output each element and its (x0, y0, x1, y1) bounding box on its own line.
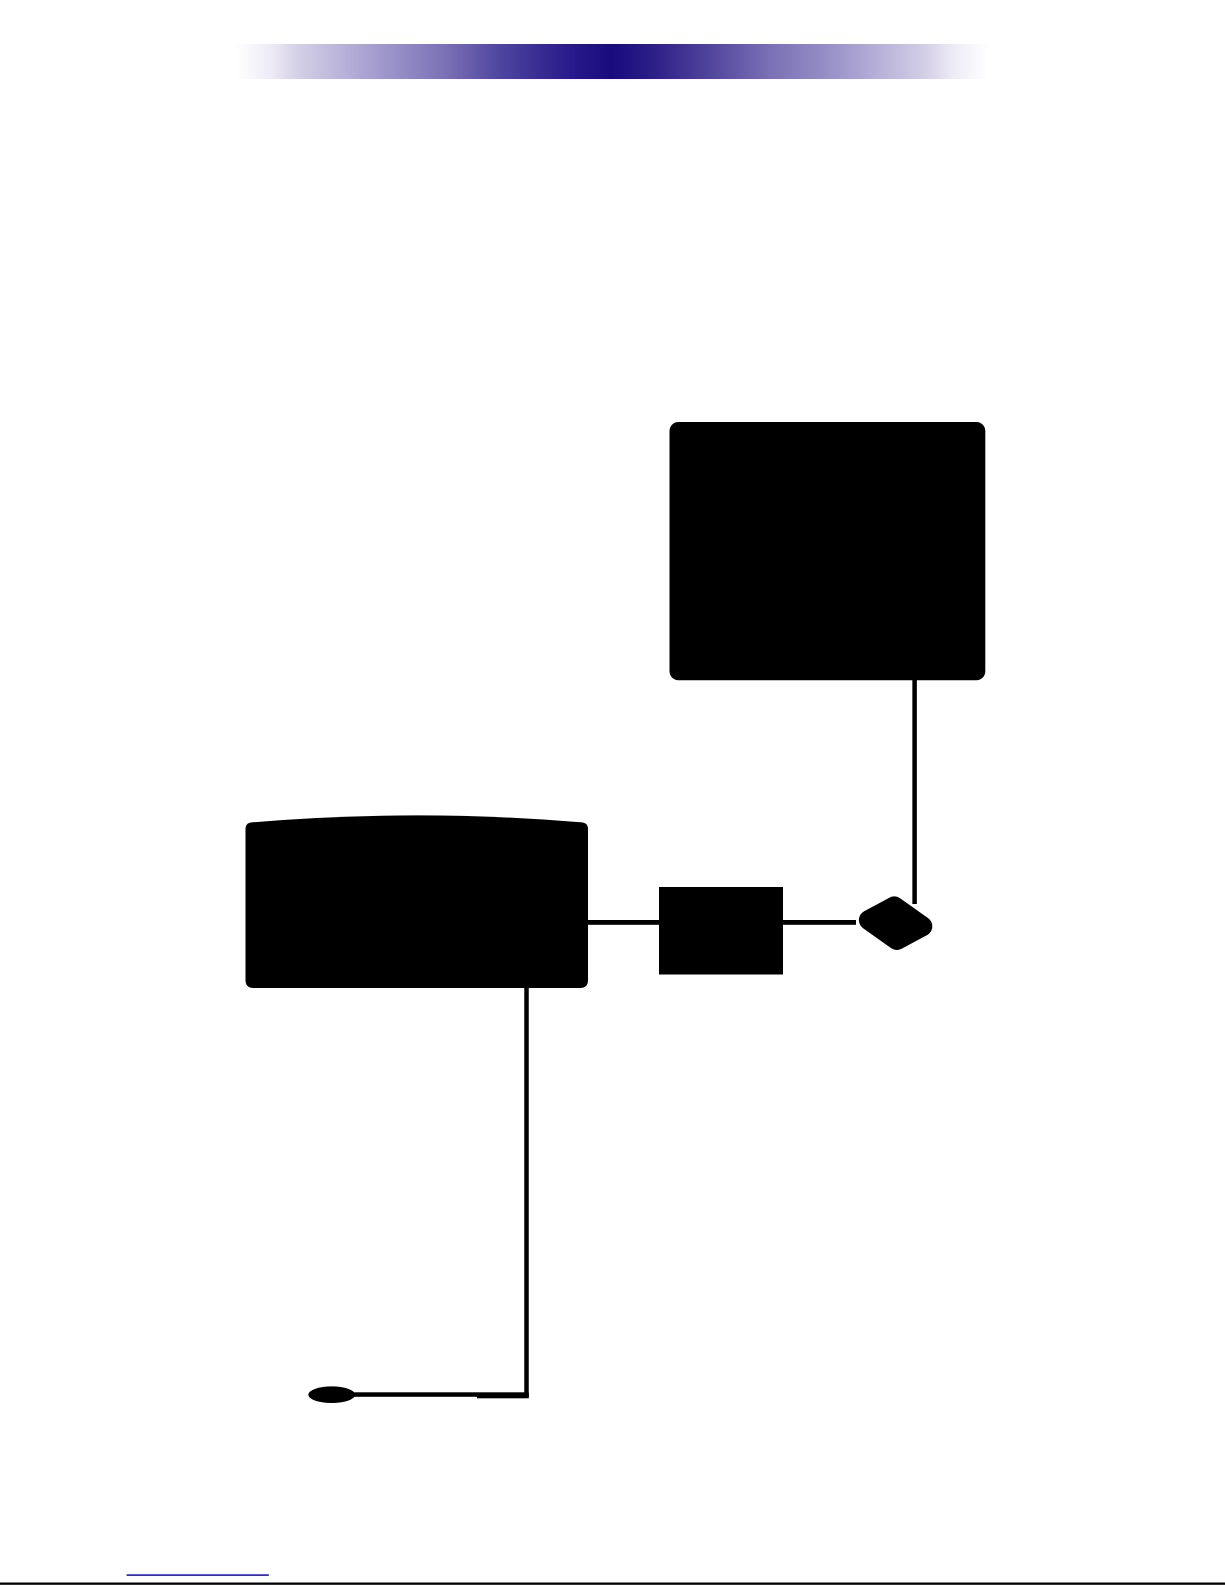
blue footer link underline (127, 1574, 269, 1576)
horizontal wire to remote sensor (352, 1392, 529, 1397)
wire from TV down to antenna connector (912, 679, 917, 904)
TV (top black rounded rectangle) (670, 422, 986, 680)
RF modulator (small black box) (659, 887, 783, 975)
remote sensor (black ellipse) (308, 1386, 355, 1403)
wire overlap step near corner (477, 1394, 529, 1399)
header gradient bar (236, 44, 988, 79)
vertical wire from receiver down (524, 986, 529, 1397)
receiver / set-top box (curved-top black box) (246, 815, 589, 988)
wire from receiver to RF modulator (586, 920, 660, 925)
antenna connector (tilted rounded block) (869, 906, 922, 940)
wire from RF modulator to antenna connector (783, 920, 856, 925)
footer rule (0, 1583, 1225, 1585)
